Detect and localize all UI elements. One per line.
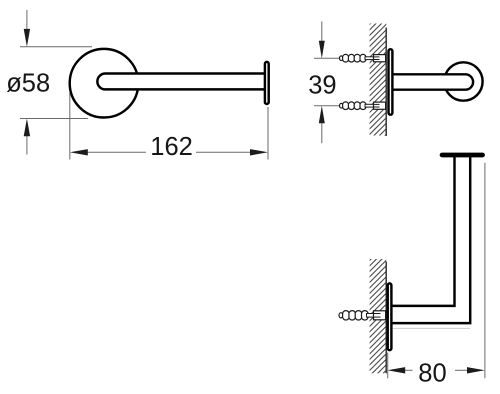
svg-text:80: 80	[418, 359, 446, 387]
wall plate (side view)	[389, 49, 393, 115]
wall hatching (side view)	[254, 20, 500, 140]
dim ø58 bottom extension line	[20, 118, 88, 120]
svg-text:162: 162	[150, 133, 193, 161]
dim 162 left extension line	[69, 93, 71, 160]
faint edge line under rod (top view)	[393, 327, 470, 329]
dim 80 dimension line + arrows	[404, 369, 413, 371]
wall plate circle	[70, 49, 139, 118]
dim 162 right extension line	[267, 107, 269, 160]
dim 162 dimension line + arrows	[87, 151, 146, 153]
dim ø58 bottom arrow	[26, 131, 28, 155]
svg-text:ø58: ø58	[6, 70, 50, 98]
end disc edge (top view)	[441, 154, 484, 156]
dim 39 top arrow	[321, 21, 323, 44]
rod end cap (front)	[265, 62, 269, 104]
svg-text:39: 39	[308, 72, 336, 100]
rod (side view) with rounded end	[393, 74, 473, 89]
wall surface line (side view)	[385, 28, 387, 137]
wall plate (top view)	[388, 283, 392, 350]
wall surface line (top view)	[385, 262, 387, 374]
roll-holder rod (front)	[97, 74, 264, 90]
dim ø58 top arrow	[26, 10, 28, 33]
end disc (side view)	[444, 62, 482, 100]
dim 39 bottom extension / screw centerline	[314, 105, 341, 107]
dim 80 right extension line	[484, 163, 486, 379]
dim 80 left extension line	[387, 353, 389, 379]
screw S1 (top)	[340, 54, 386, 62]
wall hatching (top view)	[252, 255, 500, 378]
dim 39 bottom arrow	[321, 119, 323, 143]
dim 39 top extension / screw centerline	[314, 57, 341, 59]
L-shaped rod (top view)	[392, 156, 470, 323]
screw S3 (top view)	[339, 311, 386, 320]
screw S2 (bottom)	[340, 102, 386, 110]
dim ø58 top extension line	[20, 46, 92, 48]
